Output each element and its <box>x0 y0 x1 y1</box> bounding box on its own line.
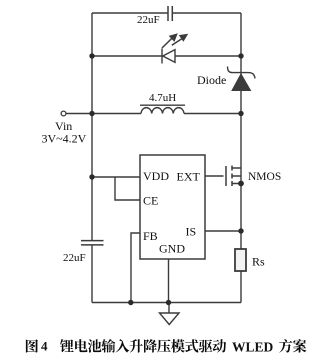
ground symbol <box>160 303 180 325</box>
svg-text:FB: FB <box>143 229 158 243</box>
capacitor C2 22uF bottom <box>81 241 104 245</box>
LED D1 emission arrows <box>162 33 188 48</box>
junction node at LED right <box>238 53 243 58</box>
wire EXT pin to gate <box>205 175 224 177</box>
svg-text:VDD: VDD <box>143 169 169 183</box>
wire VDD pin <box>92 176 140 178</box>
capacitor C1 22uF top <box>168 6 172 21</box>
svg-text:WLED: WLED <box>232 340 274 355</box>
wire FB pin drop <box>131 233 140 303</box>
junction node at VDD rail <box>89 174 94 179</box>
wire Vin to inductor <box>67 113 142 115</box>
caption CJK glyph paths <box>26 339 307 353</box>
op-amp U1 driver IC box <box>140 155 205 259</box>
junction node at NMOS source <box>238 181 244 187</box>
wire GND pin drop <box>168 259 170 303</box>
svg-text:IS: IS <box>186 225 197 239</box>
junction node at LED left <box>89 53 94 58</box>
wire top rail <box>92 12 241 14</box>
svg-text:22uF: 22uF <box>63 252 86 264</box>
wire CE pin tied to VDD <box>115 177 140 200</box>
wire left rail <box>91 13 93 303</box>
svg-text:Rs: Rs <box>252 255 265 269</box>
junction node at IS <box>238 228 243 233</box>
wire bottom rail <box>92 302 241 304</box>
svg-text:3V~4.2V: 3V~4.2V <box>42 132 87 146</box>
svg-text:GND: GND <box>159 242 185 256</box>
terminal Vin <box>61 111 66 116</box>
junction node at GND bottom <box>166 300 171 305</box>
svg-text:CE: CE <box>143 194 158 208</box>
svg-text:Diode: Diode <box>197 73 226 87</box>
resistor Rs <box>235 249 246 271</box>
inductor L1 4.7uH <box>140 105 185 113</box>
transistor Q1 NMOS <box>226 166 241 187</box>
svg-text:NMOS: NMOS <box>248 171 281 183</box>
wire right rail <box>240 13 242 303</box>
svg-text:22uF: 22uF <box>137 14 160 26</box>
svg-text:EXT: EXT <box>177 170 201 184</box>
diode D2 Schottky <box>228 67 256 91</box>
svg-text:4.7uH: 4.7uH <box>149 92 176 104</box>
junction node at inductor right <box>238 111 243 116</box>
svg-text:4: 4 <box>41 339 48 354</box>
junction node at Vin rail <box>89 111 94 116</box>
LED D1 <box>162 49 175 64</box>
wire inductor to right rail <box>184 113 241 115</box>
junction node at FB bottom <box>128 300 133 305</box>
wire IS pin <box>205 230 241 232</box>
wire LED branch <box>92 55 241 57</box>
